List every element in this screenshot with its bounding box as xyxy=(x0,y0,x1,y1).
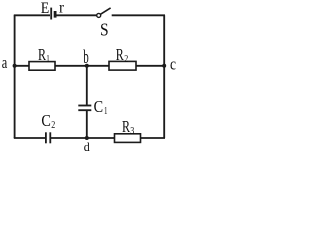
capacitor C1 (bottom plate) xyxy=(78,109,91,111)
svg-text:R: R xyxy=(116,45,124,64)
wire: bottom rail C2 to R3 xyxy=(51,137,115,139)
label b xyxy=(83,47,89,68)
svg-text:R: R xyxy=(38,45,46,64)
svg-text:r: r xyxy=(59,0,65,16)
capacitor C2 (left plate) xyxy=(45,132,47,143)
wire: top rail switch to top-right corner xyxy=(112,14,165,16)
label c xyxy=(170,54,176,73)
switch S lever (open) xyxy=(101,8,111,14)
wire: branch b down to C1 xyxy=(86,66,88,105)
label C2 xyxy=(41,111,55,131)
node c (junction dot) xyxy=(162,64,166,68)
svg-text:c: c xyxy=(170,54,176,73)
svg-text:3: 3 xyxy=(130,126,134,137)
label R1 xyxy=(38,45,50,65)
battery E (long plate) xyxy=(50,8,52,20)
svg-text:C: C xyxy=(41,111,51,130)
label r (internal resistance) xyxy=(59,0,65,16)
label R3 xyxy=(122,117,134,137)
capacitor C2 (right plate) xyxy=(49,132,51,143)
svg-text:a: a xyxy=(2,53,8,72)
node a (junction dot) xyxy=(13,64,17,68)
label a xyxy=(2,53,8,72)
capacitor C1 (top plate) xyxy=(78,105,91,107)
wire: top rail left segment (top-left corner to battery) xyxy=(14,14,50,16)
svg-text:b: b xyxy=(83,47,89,68)
label S xyxy=(100,20,109,40)
label d xyxy=(84,139,90,154)
wire: bottom rail left (bottom-left corner to C2) xyxy=(14,137,45,139)
svg-text:S: S xyxy=(100,20,109,40)
switch S pivot circle xyxy=(97,13,101,17)
label R2 xyxy=(116,45,129,65)
svg-text:E: E xyxy=(41,0,50,17)
wire: middle rail a to c xyxy=(15,65,165,67)
wire: outer loop left vertical (a to bottom-left) xyxy=(14,15,16,138)
node b (junction dot) xyxy=(85,64,89,68)
wire: top rail battery to switch xyxy=(57,14,97,16)
resistor R3 xyxy=(115,134,141,143)
svg-text:d: d xyxy=(84,139,90,154)
resistor R2 xyxy=(109,61,136,70)
label E xyxy=(41,0,50,17)
battery E (short thick plate) xyxy=(54,11,57,18)
wire: outer loop right vertical (top-right to bottom-right) xyxy=(163,15,165,138)
svg-text:C: C xyxy=(94,97,104,116)
resistor R1 xyxy=(29,62,55,71)
svg-text:1: 1 xyxy=(46,54,50,65)
node d (junction dot) xyxy=(85,136,89,140)
svg-text:2: 2 xyxy=(51,120,55,131)
wire: bottom rail R3 to bottom-right corner xyxy=(141,137,166,139)
svg-text:R: R xyxy=(122,117,130,136)
wire: C1 down to node d xyxy=(86,111,88,138)
svg-text:2: 2 xyxy=(124,54,128,65)
svg-text:1: 1 xyxy=(104,106,108,117)
label C1 xyxy=(94,97,108,117)
